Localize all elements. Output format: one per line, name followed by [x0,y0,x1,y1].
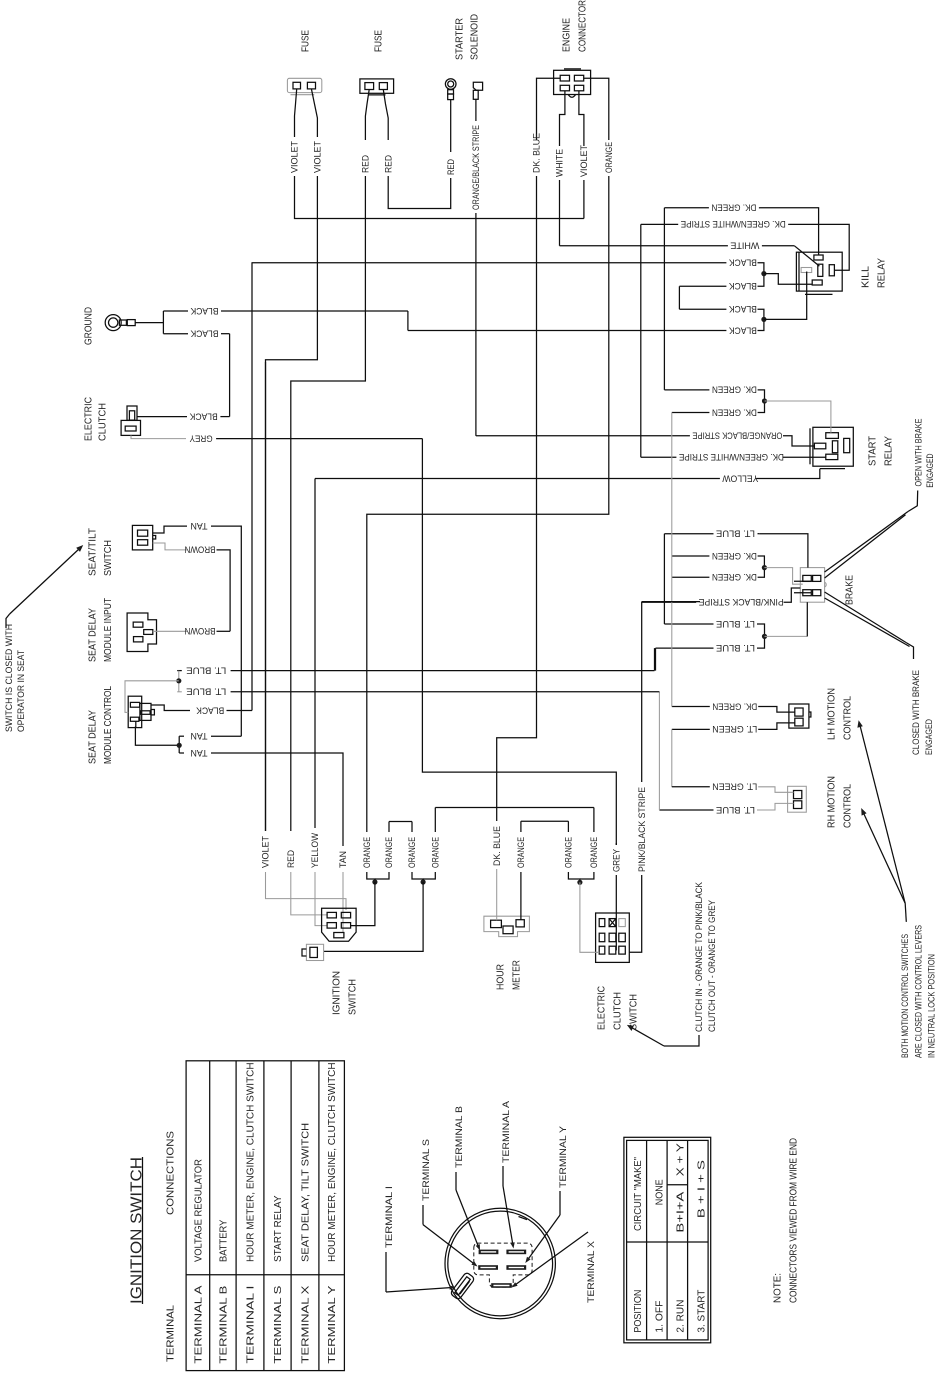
svg-text:TERMINAL A: TERMINAL A [193,1285,204,1363]
svg-text:TAN: TAN [191,748,208,758]
svg-text:VIOLET: VIOLET [313,141,323,173]
svg-text:TERMINAL Y: TERMINAL Y [558,1126,568,1188]
svg-text:SWITCH IS CLOSED WITH: SWITCH IS CLOSED WITH [4,624,14,732]
svg-text:BROWN: BROWN [185,626,216,636]
svg-text:DK. GREEN: DK. GREEN [712,701,757,711]
svg-text:BLACK: BLACK [190,306,219,316]
svg-text:BLACK: BLACK [728,258,757,268]
svg-text:TERMINAL S: TERMINAL S [273,1285,284,1363]
svg-text:DK. GREEN: DK. GREEN [712,572,757,582]
svg-text:LT. BLUE: LT. BLUE [186,687,226,697]
svg-text:ELECTRIC: ELECTRIC [596,986,608,1030]
svg-text:BOTH MOTION CONTROL SWITCHES: BOTH MOTION CONTROL SWITCHES [900,934,910,1058]
svg-text:RH MOTION: RH MOTION [826,776,838,828]
svg-text:TERMINAL S: TERMINAL S [421,1139,431,1201]
svg-text:ORANGE/BLACK STRIPE: ORANGE/BLACK STRIPE [471,125,481,210]
svg-text:ORANGE: ORANGE [430,837,440,868]
svg-text:GREY: GREY [190,433,213,443]
svg-text:LH MOTION: LH MOTION [826,688,838,740]
svg-text:ENGAGED: ENGAGED [924,719,934,755]
svg-text:LT. BLUE: LT. BLUE [716,529,755,539]
svg-text:CONTROL: CONTROL [842,784,854,828]
svg-text:TERMINAL Y: TERMINAL Y [327,1285,338,1363]
svg-text:ARE CLOSED WITH CONTROL LEVERS: ARE CLOSED WITH CONTROL LEVERS [914,925,924,1058]
svg-text:WHITE: WHITE [555,149,565,177]
svg-text:VIOLET: VIOLET [261,836,271,868]
svg-text:LT. BLUE: LT. BLUE [716,805,755,815]
svg-text:POSITION: POSITION [633,1290,644,1333]
svg-text:TERMINAL A: TERMINAL A [501,1100,511,1163]
svg-text:BLACK: BLACK [190,329,219,339]
svg-text:SWITCH: SWITCH [102,540,114,576]
svg-text:LT. BLUE: LT. BLUE [716,643,755,653]
svg-text:RED: RED [446,159,456,175]
svg-text:TAN: TAN [338,851,348,868]
svg-text:ORANGE: ORANGE [589,837,599,868]
svg-text:DK. GREEN: DK. GREEN [712,407,757,417]
svg-text:RELAY: RELAY [876,258,888,288]
svg-text:CLUTCH IN - ORANGE TO PINK/BLA: CLUTCH IN - ORANGE TO PINK/BLACK [694,881,704,1032]
svg-text:TERMINAL B: TERMINAL B [454,1106,464,1168]
svg-text:CLUTCH: CLUTCH [97,403,109,441]
svg-text:CLOSED WITH BRAKE: CLOSED WITH BRAKE [911,670,921,755]
svg-text:FUSE: FUSE [373,30,385,52]
svg-text:IGNITION: IGNITION [331,971,343,1015]
svg-text:2. RUN: 2. RUN [675,1300,686,1333]
svg-text:ORANGE: ORANGE [516,837,526,868]
svg-text:LT. GREEN: LT. GREEN [712,724,757,734]
svg-text:FUSE: FUSE [300,30,312,52]
svg-text:DK. GREEN/WHITE STRIPE: DK. GREEN/WHITE STRIPE [679,452,784,462]
svg-text:TERMINAL X: TERMINAL X [586,1241,596,1303]
svg-text:NONE: NONE [654,1179,665,1205]
svg-text:GREY: GREY [611,849,621,872]
svg-text:NOTE:: NOTE: [772,1273,784,1303]
svg-text:X + Y: X + Y [675,1143,686,1176]
svg-text:OPERATOR IN SEAT: OPERATOR IN SEAT [16,650,26,732]
svg-text:BATTERY: BATTERY [218,1219,229,1262]
svg-text:CLUTCH: CLUTCH [612,992,624,1030]
svg-text:TERMINAL I: TERMINAL I [245,1286,256,1364]
svg-text:LT. BLUE: LT. BLUE [716,619,755,629]
svg-text:CONNECTORS VIEWED FROM WIRE EN: CONNECTORS VIEWED FROM WIRE END [788,1138,800,1303]
svg-text:TERMINAL X: TERMINAL X [300,1285,311,1363]
svg-text:START RELAY: START RELAY [273,1195,284,1262]
svg-text:TERMINAL I: TERMINAL I [384,1186,394,1248]
svg-text:PINK/BLACK STRIPE: PINK/BLACK STRIPE [699,597,784,607]
svg-text:SEAT/TILT: SEAT/TILT [87,527,99,576]
svg-text:CONNECTIONS: CONNECTIONS [165,1131,177,1215]
svg-text:SOLENOID: SOLENOID [469,14,481,60]
svg-text:RED: RED [361,155,371,173]
svg-text:ORANGE/BLACK STRIPE: ORANGE/BLACK STRIPE [692,431,782,441]
svg-text:RELAY: RELAY [883,436,895,466]
svg-text:SWITCH: SWITCH [628,994,640,1030]
svg-text:VOLTAGE REGULATOR: VOLTAGE REGULATOR [193,1159,204,1262]
svg-text:WHITE: WHITE [730,241,759,251]
svg-text:CIRCUIT "MAKE": CIRCUIT "MAKE" [633,1157,644,1231]
svg-text:YELLOW: YELLOW [310,833,320,868]
svg-text:HOUR METER, ENGINE, CLUTCH SWI: HOUR METER, ENGINE, CLUTCH SWITCH [327,1062,338,1262]
svg-text:TAN: TAN [191,521,208,531]
svg-text:ORANGE: ORANGE [604,142,614,173]
svg-text:LT. GREEN: LT. GREEN [712,782,757,792]
svg-text:RED: RED [286,850,296,868]
svg-text:ENGINE: ENGINE [561,18,573,52]
svg-text:IN NEUTRAL LOCK POSITION: IN NEUTRAL LOCK POSITION [927,954,936,1058]
svg-text:GROUND: GROUND [83,307,95,345]
svg-text:DK. BLUE: DK. BLUE [492,826,502,866]
svg-text:CLUTCH OUT - ORANGE TO GREY: CLUTCH OUT - ORANGE TO GREY [707,900,717,1032]
svg-text:DK. GREEN: DK. GREEN [712,551,757,561]
svg-text:SEAT DELAY: SEAT DELAY [87,608,99,662]
svg-text:OPEN WITH BRAKE: OPEN WITH BRAKE [914,419,924,487]
svg-text:BROWN: BROWN [185,545,216,555]
svg-text:1. OFF: 1. OFF [654,1301,665,1333]
svg-text:ORANGE: ORANGE [362,837,372,868]
svg-text:MODULE CONTROL: MODULE CONTROL [102,686,114,764]
svg-text:RED: RED [383,155,393,173]
svg-text:MODULE INPUT: MODULE INPUT [102,598,114,662]
svg-text:BLACK: BLACK [728,281,757,291]
svg-text:ELECTRIC: ELECTRIC [83,397,95,441]
svg-text:METER: METER [511,960,523,990]
svg-text:STARTER: STARTER [454,18,466,60]
svg-text:BLACK: BLACK [728,304,757,314]
svg-text:ENGAGED: ENGAGED [925,453,935,487]
svg-text:PINK/BLACK STRIPE: PINK/BLACK STRIPE [637,787,647,872]
svg-text:HOUR METER, ENGINE, CLUTCH SWI: HOUR METER, ENGINE, CLUTCH SWITCH [245,1062,256,1262]
svg-text:BLACK: BLACK [189,411,218,421]
svg-text:BLACK: BLACK [195,705,224,715]
svg-text:TAN: TAN [191,731,208,741]
svg-text:3. START: 3. START [696,1290,707,1333]
svg-text:VIOLET: VIOLET [290,141,300,173]
svg-text:KILL: KILL [860,266,872,288]
svg-text:SWITCH: SWITCH [347,979,359,1015]
svg-text:SEAT DELAY: SEAT DELAY [87,710,99,764]
svg-text:BRAKE: BRAKE [844,575,856,605]
svg-text:CONNECTOR: CONNECTOR [577,0,589,52]
svg-text:BLACK: BLACK [728,325,757,335]
svg-text:ORANGE: ORANGE [564,837,574,868]
svg-text:ORANGE: ORANGE [407,837,417,868]
svg-text:HOUR: HOUR [495,964,507,990]
svg-text:TERMINAL B: TERMINAL B [218,1285,229,1363]
svg-text:CONTROL: CONTROL [842,696,854,740]
svg-text:DK. BLUE: DK. BLUE [532,133,542,173]
svg-text:DK. GREEN/WHITE STRIPE: DK. GREEN/WHITE STRIPE [681,219,786,229]
svg-text:ORANGE: ORANGE [384,837,394,868]
svg-text:TERMINAL: TERMINAL [165,1305,177,1362]
svg-text:B+I+A: B+I+A [675,1191,686,1232]
svg-text:SEAT DELAY, TILT SWITCH: SEAT DELAY, TILT SWITCH [300,1123,311,1262]
svg-text:B + I + S: B + I + S [696,1160,707,1218]
svg-text:YELLOW: YELLOW [722,473,758,483]
svg-text:DK. GREEN: DK. GREEN [711,203,756,213]
svg-text:LT. BLUE: LT. BLUE [186,665,226,675]
svg-text:START: START [867,435,879,466]
svg-text:DK. GREEN: DK. GREEN [712,385,757,395]
svg-text:VIOLET: VIOLET [579,145,589,177]
